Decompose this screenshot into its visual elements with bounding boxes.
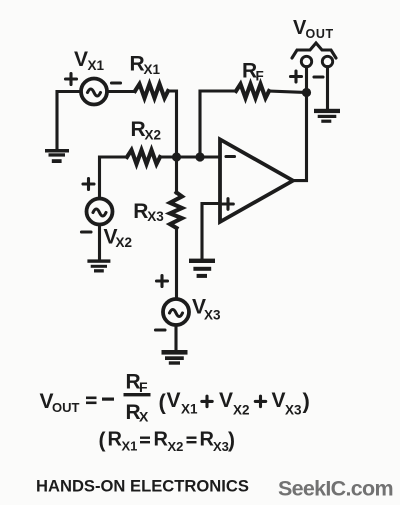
wire non-inverting input to ground — [202, 204, 220, 259]
ground under VX1 — [45, 149, 69, 163]
polarity - of VX1 — [112, 81, 121, 84]
svg-text:X3: X3 — [213, 439, 229, 454]
resistor RX1 — [135, 84, 168, 98]
resistor RX3 — [170, 193, 182, 229]
svg-text:R: R — [108, 429, 123, 451]
svg-text:X1: X1 — [122, 439, 138, 454]
svg-text:F: F — [256, 69, 264, 84]
formula (RX1 = RX2 = RX3) — [99, 429, 236, 455]
svg-text:X2: X2 — [168, 439, 184, 454]
ground under VX3 — [162, 350, 188, 365]
svg-text:R: R — [130, 53, 145, 76]
pin + (non-inverting) mark — [223, 199, 234, 210]
wire VX1 to RX1 — [107, 90, 135, 93]
polarity - of VX3 — [156, 328, 166, 331]
svg-text:OUT: OUT — [306, 27, 334, 41]
svg-text:R: R — [154, 429, 169, 451]
svg-text:F: F — [139, 379, 148, 395]
resistor RF — [236, 84, 269, 98]
label RX3 — [133, 200, 164, 224]
svg-text:V: V — [167, 389, 181, 412]
node junction B — [195, 152, 204, 161]
polarity - of VOUT — [314, 75, 323, 78]
label VX2 — [104, 226, 133, 251]
svg-text:(: ( — [99, 429, 106, 452]
op-amp U1 — [220, 139, 293, 222]
ground under op-amp + input — [189, 259, 215, 278]
terminal VOUT - — [322, 56, 332, 66]
svg-text:(: ( — [159, 390, 167, 415]
wire RX1 down to summing node — [168, 91, 177, 155]
source VX3 — [163, 299, 189, 325]
label RF — [242, 60, 264, 84]
label VX1 — [74, 48, 105, 73]
svg-text:X2: X2 — [145, 128, 162, 143]
wire op-amp output riser — [293, 93, 307, 181]
polarity + of VX3 — [157, 276, 168, 287]
brace over VOUT terminals — [292, 43, 336, 58]
wire VX2 riser and RX2 lead — [100, 157, 128, 199]
svg-text:X2: X2 — [116, 235, 133, 250]
svg-text:HANDS-ON ELECTRONICS: HANDS-ON ELECTRONICS — [36, 477, 249, 496]
svg-text:X1: X1 — [181, 402, 198, 417]
wire VX1 left to ground — [57, 92, 81, 150]
svg-text:R: R — [131, 118, 146, 141]
source VX2 — [87, 199, 113, 225]
wire RX3 to VX3 — [175, 228, 178, 299]
label RX1 — [130, 53, 161, 78]
label RX2 — [131, 118, 162, 143]
wire riser node B to RF — [200, 91, 236, 155]
svg-text:X1: X1 — [144, 62, 161, 77]
label VOUT — [293, 17, 334, 41]
svg-text:SeekIC.com: SeekIC.com — [278, 477, 393, 501]
pin - (inverting) mark — [226, 155, 235, 158]
svg-text:V: V — [74, 48, 88, 71]
polarity + of VOUT — [291, 71, 302, 82]
svg-text:X1: X1 — [88, 58, 105, 73]
svg-text:X3: X3 — [204, 308, 221, 323]
svg-text:X3: X3 — [147, 209, 164, 224]
svg-text:X2: X2 — [233, 403, 250, 418]
polarity + of VX2 — [83, 179, 94, 190]
polarity - of VX2 — [82, 230, 92, 233]
svg-text:OUT: OUT — [52, 400, 80, 415]
terminal VOUT + — [301, 56, 311, 66]
ground under VX2 — [87, 259, 110, 272]
svg-text:V: V — [219, 389, 233, 412]
svg-text:R: R — [133, 200, 148, 223]
wire VX2 to ground — [98, 225, 101, 260]
node summing junction A — [172, 152, 181, 161]
svg-text:X: X — [139, 409, 149, 425]
wire summing node down to RX3 — [175, 157, 178, 193]
resistor RX2 — [127, 150, 160, 164]
wire summing node to op-amp inverting input — [160, 155, 220, 158]
wire VOUT - terminal to ground — [326, 67, 329, 108]
svg-text:): ) — [228, 429, 235, 452]
svg-text:): ) — [303, 389, 310, 414]
polarity + of VX1 — [66, 74, 77, 85]
source VX1 — [81, 79, 107, 105]
svg-text:V: V — [272, 389, 286, 412]
svg-text:X3: X3 — [285, 403, 302, 418]
ground under VOUT - terminal — [314, 109, 340, 123]
wire VX3 to ground — [174, 325, 177, 350]
wire RF to output node — [269, 91, 307, 93]
formula VOUT = -RF/RX (VX1 + VX2 + VX3) — [40, 371, 310, 425]
label VX3 — [192, 296, 221, 323]
node output junction — [302, 88, 311, 97]
wire VOUT + terminal to output node — [305, 67, 308, 88]
